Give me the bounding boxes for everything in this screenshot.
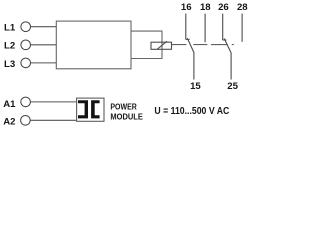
- pin 18 line (NO fixed contact): [204, 14, 206, 43]
- svg-text:POWER: POWER: [110, 103, 137, 112]
- wire L2 to body: [30, 44, 56, 46]
- terminal circle A1: [21, 97, 31, 107]
- svg-text:18: 18: [200, 2, 211, 13]
- pin 16 contact seat tick: [186, 38, 190, 40]
- pin 26 contact seat tick: [223, 39, 227, 41]
- pin 26 line (NC fixed contact): [222, 14, 224, 40]
- contact lever of changeover contact 15/16/18: [187, 38, 194, 52]
- svg-text:L3: L3: [4, 59, 15, 70]
- wire L3 to body: [30, 62, 56, 64]
- logo box (Interface logo frame): [77, 98, 104, 121]
- svg-text:16: 16: [181, 2, 192, 13]
- wire L1 to body: [30, 26, 56, 28]
- pin 16 line (NC fixed contact): [185, 14, 187, 40]
- terminal circle L2: [21, 40, 31, 50]
- relay housing (protrusion box on right of body): [131, 31, 162, 58]
- svg-text:25: 25: [227, 81, 238, 92]
- svg-text:28: 28: [237, 2, 248, 13]
- svg-text:15: 15: [190, 81, 201, 92]
- svg-text:MODULE: MODULE: [110, 113, 142, 122]
- svg-text:L1: L1: [4, 23, 16, 34]
- svg-text:A2: A2: [3, 117, 15, 128]
- mechanical linkage (dashed) from coil to contacts: [172, 44, 187, 46]
- svg-text:U = 110...500 V AC: U = 110...500 V AC: [154, 106, 229, 117]
- wire A2 to logo box: [30, 119, 77, 121]
- pin 15 common line: [193, 52, 195, 79]
- terminal circle A2: [21, 116, 31, 126]
- power module body box: [56, 21, 131, 69]
- svg-text:L2: L2: [4, 41, 15, 52]
- pin 28 line (NO fixed contact): [241, 14, 243, 42]
- terminal circle L1: [21, 22, 31, 32]
- contact lever of changeover contact 25/26/28: [224, 39, 231, 53]
- logo glyph left ]: [78, 100, 88, 118]
- relay coil K1 (rectangle with slash): [151, 42, 172, 49]
- logo glyph right [: [91, 100, 100, 118]
- svg-text:A1: A1: [3, 99, 16, 110]
- svg-text:26: 26: [218, 2, 229, 13]
- wire A1 to logo box: [30, 101, 76, 103]
- terminal circle L3: [21, 58, 31, 68]
- pin 25 common line: [230, 53, 232, 80]
